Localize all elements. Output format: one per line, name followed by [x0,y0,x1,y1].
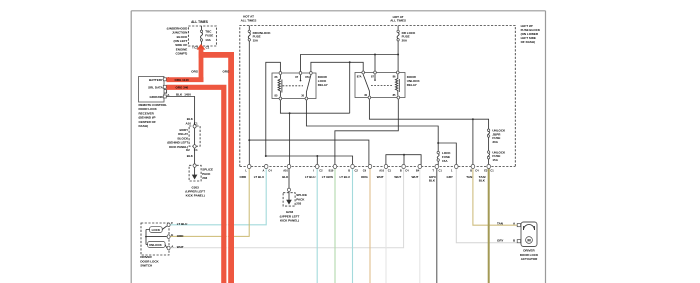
svg-text:C1: C1 [490,168,494,172]
fuse UNLOCK 15A [487,151,489,153]
svg-text:F: F [171,221,173,225]
connector row pins [247,164,490,168]
wire through splice to ground arrow [288,192,290,200]
wire BLK to splice [194,148,196,165]
unlock relay pin labels [357,75,396,97]
fuse TBC label [205,29,213,41]
svg-text:15A: 15A [492,158,498,162]
junction dot [374,54,376,56]
svg-text:BLK: BLK [187,117,194,121]
svg-text:C4: C4 [475,168,479,172]
svg-text:87A: 87A [305,75,310,79]
svg-text:C1: C1 [206,46,210,50]
unlock relay linkage dashed [371,85,392,87]
wire lock85 to junction (y113.2) [280,100,349,113]
colored wire WHT down 2 [419,168,421,283]
svg-text:ORD: ORD [240,175,248,179]
colored wire LT GRN down [334,168,336,283]
wire lock87A to unlock87A (y62.3) [311,62,363,72]
highlighted wire ORG 340 (data pin to column 1) [167,87,224,283]
wire fuse DR LOCK to relays (H y54.5) [301,55,399,73]
colored wire TAN/BLK down [488,168,490,283]
svg-text:15A: 15A [442,159,448,163]
wire down to white pin [403,155,405,165]
left I/P fuse block dashed box [240,26,516,167]
junction dot [289,112,291,114]
lock relay contact [301,75,311,97]
colored wire LT BLU down 1 [316,168,318,283]
highlighted feed branch to column 2 [199,55,231,283]
remote control door lock receiver box [139,77,165,103]
page border left [130,11,132,283]
svg-text:BLK: BLK [187,154,194,158]
colored wire GRY to actuator B [456,168,517,243]
fuse TBC wire stub [201,26,203,30]
svg-text:RELAY: RELAY [318,83,328,87]
splice pack label [202,168,213,180]
G203 label [185,185,205,197]
svg-text:KICK PANEL): KICK PANEL) [280,219,299,223]
svg-text:C1: C1 [388,168,392,172]
svg-text:BLK: BLK [176,92,183,96]
svg-text:DASH): DASH) [139,124,149,128]
page border top [131,10,545,12]
svg-text:A: A [263,168,265,172]
door unlock relay box [355,73,405,98]
svg-text:10A: 10A [205,38,211,42]
svg-text:TAN: TAN [466,175,472,179]
wire lock30 to LOCK fuse (y126) [306,100,438,151]
connector pin designators [245,168,494,172]
fuse DR/UNLOCK 15A [248,26,250,31]
junction dot [316,155,318,157]
wire BLK 1450 ground [166,97,194,125]
white gap between red columns [226,90,228,283]
colored wire TAN to actuator A [473,168,517,225]
svg-text:A10: A10 [379,168,384,172]
switch pins [167,223,170,227]
svg-text:COMPT): COMPT) [175,52,187,56]
connector row dashed line [240,166,516,168]
junction dot lock fuse branch [437,142,439,144]
colored wire ORD to switch E [170,168,249,236]
highlighted ORG feed: arrow into fuse [197,44,206,50]
body relay block top pin [193,125,196,128]
wire BLK down to row [289,113,291,165]
driver door lock actuator box [521,222,537,247]
colored wire WHT down 1 [385,168,387,283]
wire H6 white net (y154.7) [386,155,421,165]
door lock relay box [272,73,316,99]
switch internal common wire [146,230,167,245]
svg-text:ORG: ORG [223,70,231,74]
colored wire LT BLU to switch F [170,168,266,225]
driver door lock switch dashed box [141,223,169,255]
body relay block label [167,128,189,149]
wire color labels under row [240,175,486,183]
lock relay coil [278,75,280,97]
svg-text:BLK: BLK [282,175,289,179]
svg-text:15A: 15A [253,38,259,42]
svg-text:B4: B4 [416,168,420,172]
svg-text:ORG: ORG [191,70,199,74]
svg-text:B10: B10 [329,168,334,172]
driver door lock actuator label [520,249,539,261]
wire junction to H113 [349,62,351,113]
lock relay pin labels [275,75,311,97]
svg-text:GRY: GRY [497,238,503,242]
junction dot [397,54,399,56]
svg-text:C9: C9 [363,168,367,172]
svg-text:30A: 30A [492,140,498,144]
lock relay linkage dashed [283,85,304,87]
svg-text:ORG: ORG [361,175,369,179]
wire to unlock relay 87 [374,55,376,72]
actuator pins [517,224,520,227]
wire unlock85 to green pin (y130.8) [335,99,398,165]
svg-text:ACTUATOR: ACTUATOR [521,257,538,261]
receiver label [139,103,168,128]
HOT AT ALL TIMES (left) [241,15,257,23]
svg-text:BLK: BLK [479,179,486,183]
unlock relay pins bottom [368,96,371,99]
svg-text:WHT: WHT [412,175,419,179]
svg-text:C4: C4 [405,168,409,172]
svg-text:KICK PANEL): KICK PANEL) [186,194,205,198]
HOT AT ALL TIMES (right) [390,15,406,23]
lock relay pins top [279,72,282,75]
colored wire WHT to switch A [170,168,404,248]
LOCK button [150,227,163,233]
svg-text:WHT: WHT [177,245,184,249]
svg-text:GRY: GRY [447,175,453,179]
receiver pin BATTERY [163,78,166,81]
svg-text:E: E [171,233,173,237]
svg-text:RELAY: RELAY [407,83,417,87]
svg-text:LT GRN: LT GRN [322,175,333,179]
wire left fuse branch (y140.1) [249,140,369,165]
svg-text:A10: A10 [283,168,288,172]
svg-text:A10: A10 [186,122,192,126]
splice pack 203 dashed box (left) [189,165,201,181]
junction dot [248,139,250,141]
unlock relay contact [363,75,375,96]
UNLOCK button [148,242,166,248]
door lock relay label [318,75,328,87]
lock relay pins bottom [279,97,282,100]
ground arrow G203 [194,168,196,176]
svg-text:GROUND: GROUND [149,95,163,99]
svg-text:BLK: BLK [429,179,436,183]
svg-text:203: 203 [202,176,207,180]
colored wire GRY/BLK down [436,168,438,283]
svg-text:OF DASH): OF DASH) [521,40,536,44]
svg-text:ORD: ORD [177,234,185,238]
splice pack top pin [193,164,196,167]
actuator mechanism arc [524,225,535,230]
colored wire BLK to splice [288,168,290,188]
unlock contact [146,245,167,249]
svg-text:B: B [400,168,402,172]
svg-text:LT BLU: LT BLU [340,175,350,179]
svg-text:WHT: WHT [377,175,384,179]
wire unlock30 to fuses (y119.2) [369,99,488,129]
svg-text:20A: 20A [402,38,408,42]
fuse DR LOCK 20A [397,26,399,31]
wire H5 cyan net (y156) [266,156,353,165]
svg-text:1450: 1450 [184,92,191,96]
svg-text:C1: C1 [439,168,443,172]
svg-text:203: 203 [296,202,301,206]
underhood junction block dashed box [188,26,216,46]
svg-text:LT BLU: LT BLU [305,175,315,179]
svg-text:ALL TIMES: ALL TIMES [241,18,257,22]
svg-text:E3: E3 [484,168,488,172]
G203 label (right) [280,210,300,222]
svg-text:B: B [470,168,472,172]
receiver connector bracket [164,90,167,94]
svg-text:C2: C2 [355,168,359,172]
receiver pin GROUND [163,95,166,98]
highlighted wire ORG 1140 (fuse to battery pin) [167,49,204,82]
wire through body relay block [194,128,196,145]
svg-text:B: B [348,168,350,172]
unlock relay coil [395,75,397,96]
underhood junction block label [167,26,188,55]
wire lock86 bypass (y62.3) [266,62,281,156]
colored wire ORG down [369,168,371,283]
fuse UNLOCK JBPR 30A [487,129,489,131]
body relay block bottom pin [193,145,196,148]
splice pack 203 (right) connector [288,188,291,191]
junction dot [472,118,474,120]
svg-text:UNLOCK: UNLOCK [149,243,163,247]
unlock relay pins top [362,71,365,74]
svg-text:SRL DATA: SRL DATA [148,85,163,89]
door unlock relay label [407,75,421,87]
colored wire LT BLU down 2 [352,168,354,283]
splice pack label (right) [296,193,307,205]
svg-text:C2: C2 [319,168,323,172]
splice pack 203 dashed box (right) [283,193,295,206]
svg-text:LT BLU: LT BLU [177,222,187,226]
left I/P fuse block label [521,24,541,44]
body relay block dashed box [189,126,200,146]
svg-text:LOCK: LOCK [152,228,161,232]
junction dot [349,61,351,63]
receiver pin SRL DATA [163,85,166,88]
wire branch to GRY pin [438,143,456,165]
wire down to cyan pin [316,156,318,165]
svg-text:K2: K2 [186,148,190,152]
lock contact [146,226,167,230]
fuse LOCK 15A [437,151,439,153]
driver door lock switch label [140,255,159,267]
svg-text:ORG 340: ORG 340 [176,85,189,89]
junction dot [403,154,405,156]
fuse TBC symbol [200,30,202,32]
junction dot [265,155,267,157]
page border right [545,11,547,283]
svg-text:SWITCH: SWITCH [140,264,152,268]
svg-text:WHT: WHT [394,175,401,179]
svg-text:ALL TIMES: ALL TIMES [191,20,208,24]
actuator motor M [526,237,533,244]
svg-text:ALL TIMES: ALL TIMES [390,19,406,23]
svg-text:TAN: TAN [497,221,503,225]
svg-text:87A: 87A [357,75,362,79]
svg-text:C4: C4 [268,168,272,172]
svg-text:ORG 1140: ORG 1140 [175,78,190,82]
svg-text:LT BLU: LT BLU [254,175,264,179]
wire down to row pin [472,119,474,165]
svg-text:BATTERY: BATTERY [149,78,163,82]
